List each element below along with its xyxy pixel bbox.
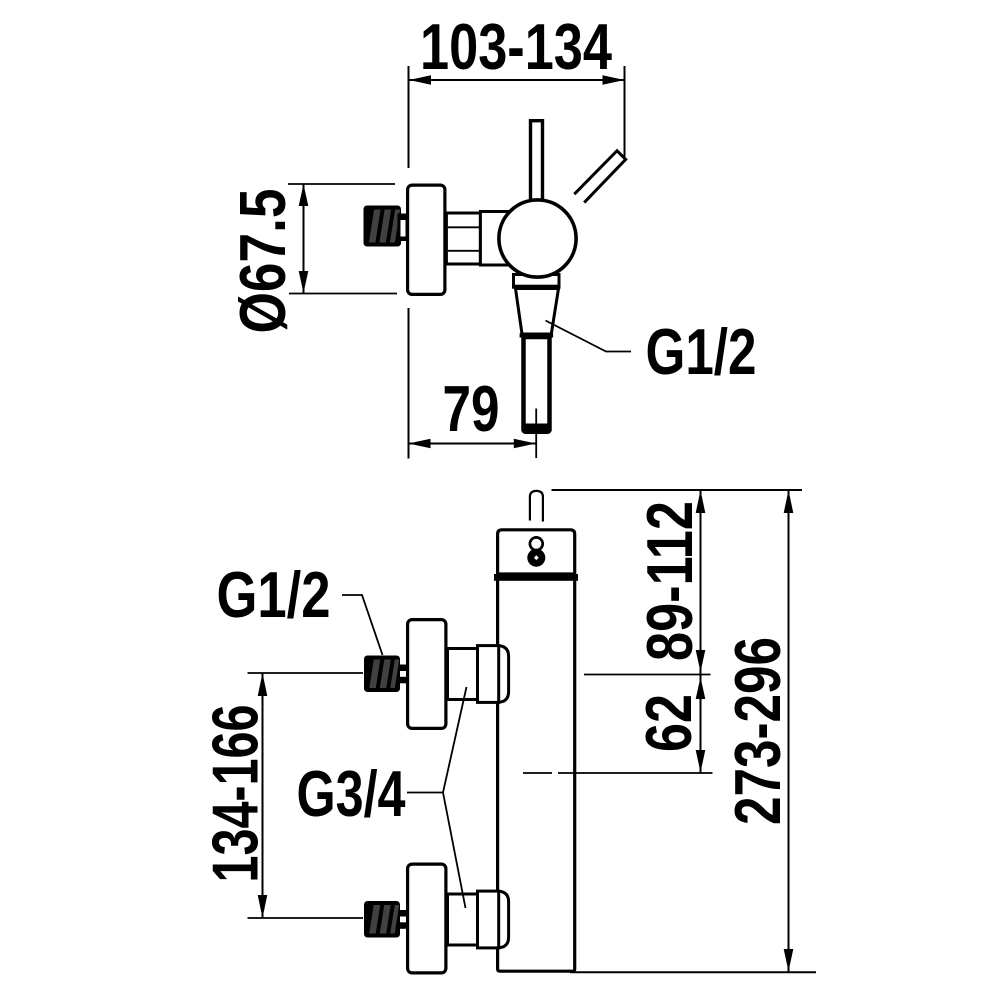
- main body (front view): [498, 574, 575, 971]
- lower escutcheon: [408, 864, 446, 973]
- leader line G1/2 (side view): [546, 321, 632, 352]
- upper wall nipple: [364, 656, 400, 693]
- arrow down 89-112: [696, 650, 706, 672]
- valve neck section 1: [446, 213, 480, 264]
- nipple thread stripes: [369, 210, 400, 243]
- cone thick bottom band: [520, 333, 554, 337]
- dimension line 89-112 / 62: [700, 490, 702, 773]
- outlet cone: [516, 289, 559, 335]
- arrow up 134-166: [258, 673, 268, 696]
- extension line upper nipple center: [248, 672, 364, 674]
- leader line G1/2 (front view): [342, 595, 383, 655]
- outlet centerline: [535, 409, 537, 459]
- extension line top reference: [552, 489, 803, 491]
- dimension line 103-134: [409, 79, 625, 81]
- svg-text:Ø67.5: Ø67.5: [226, 189, 299, 334]
- upper connection pipe: [448, 649, 480, 700]
- svg-text:273-296: 273-296: [721, 637, 794, 825]
- arrow right 79: [514, 439, 536, 449]
- svg-text:G1/2: G1/2: [217, 558, 331, 631]
- wall nipple (side view, threaded): [364, 206, 402, 247]
- arrow up 62: [696, 677, 706, 699]
- extension line lower nipple center: [248, 917, 364, 919]
- lower wall nipple: [364, 901, 400, 938]
- dimension line 134-166: [262, 673, 264, 918]
- leader lines G3/4: [407, 687, 467, 793]
- lower connection pipe: [448, 894, 480, 945]
- svg-text:62: 62: [632, 694, 705, 752]
- upper union nut: [499, 646, 509, 703]
- svg-text:G3/4: G3/4: [297, 757, 406, 830]
- handle lever (side view, diagonal): [574, 151, 625, 203]
- body cap: [498, 530, 575, 576]
- outlet tube: [524, 337, 550, 429]
- extension line bottom reference: [570, 971, 816, 973]
- arrow up 273-296: [784, 490, 794, 513]
- collar thick bottom band: [512, 285, 561, 289]
- extension line Ø67.5 bottom: [289, 293, 397, 295]
- hose arch at top: [530, 491, 543, 522]
- neck inner line 1: [448, 226, 480, 228]
- upper nipple tabs: [400, 665, 408, 672]
- nipple collar: [398, 214, 409, 242]
- upper escutcheon: [408, 620, 446, 729]
- arrow down 273-296: [784, 949, 794, 972]
- svg-text:G1/2: G1/2: [646, 315, 757, 388]
- extension line right (handle tip): [624, 66, 626, 159]
- dimension line Ø67.5: [303, 184, 305, 293]
- lower union nut: [499, 891, 509, 948]
- arrow left 79: [409, 439, 431, 449]
- arrow down Ø67.5: [299, 271, 309, 293]
- shower outlet collar: [514, 275, 560, 288]
- arrow up 89-112: [696, 490, 706, 513]
- dimension line 273-296: [788, 490, 790, 972]
- arrow left 103-134: [409, 75, 431, 85]
- body separator band: [494, 574, 578, 581]
- outlet tube black tip: [522, 424, 552, 435]
- svg-text:79: 79: [443, 372, 500, 445]
- extension line Ø67.5 top: [288, 183, 395, 185]
- arrow down 134-166: [258, 895, 268, 918]
- valve body ball (side view): [499, 200, 576, 277]
- svg-text:89-112: 89-112: [633, 501, 706, 661]
- svg-text:134-166: 134-166: [199, 705, 272, 883]
- arrow right 103-134: [603, 75, 625, 85]
- escutcheon (side view wall plate): [408, 185, 445, 294]
- svg-text:103-134: 103-134: [420, 10, 612, 83]
- handle rod (side view): [531, 121, 543, 206]
- cap logo ring: [530, 537, 543, 550]
- neck inner line 2: [448, 250, 480, 252]
- outlet centerline (front view): [523, 772, 552, 774]
- cap logo ball: [527, 549, 545, 567]
- arrow down 62: [696, 750, 706, 773]
- extension line left (wall): [408, 66, 410, 168]
- lower nipple tabs: [400, 910, 408, 917]
- dimension line 79: [409, 443, 536, 445]
- extension line upper connection center (right): [584, 674, 711, 676]
- valve neck section 2: [480, 212, 512, 266]
- arrow up Ø67.5: [299, 184, 309, 206]
